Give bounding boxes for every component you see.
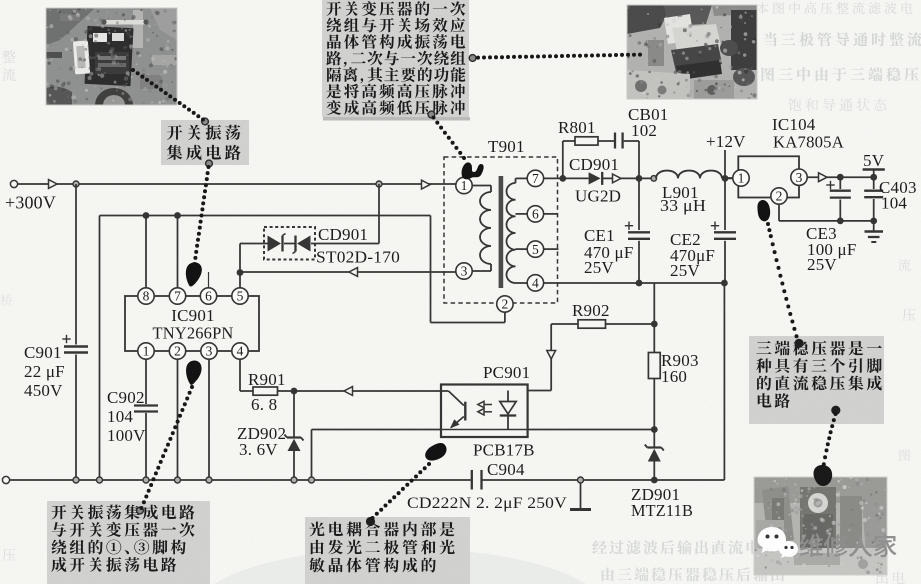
optocoupler PC901 body <box>441 385 528 438</box>
node junction pin8-bus <box>143 212 150 219</box>
label IC901 <box>153 306 234 343</box>
wire primary-ground riser <box>99 216 101 481</box>
annotation dot bottom of right box <box>831 406 840 415</box>
resistor R801 <box>563 137 614 179</box>
node 5V supply stub <box>863 170 885 178</box>
diode ZD902 zener <box>285 391 304 480</box>
node junction CE1-rail <box>636 280 643 287</box>
pointer blob at IC901 pin2 <box>186 360 202 384</box>
diode CD901 UG2D rectifier <box>589 172 603 185</box>
faint page watermark ellipse <box>193 548 607 584</box>
wire secondary ground rail <box>482 479 725 481</box>
photo: switch-mode IC on circuit board (top-left) <box>44 7 178 106</box>
wire IC901 pin3 lead <box>208 359 210 480</box>
node junction R902-R903 <box>651 321 658 328</box>
label CE2 value <box>670 230 715 280</box>
pin IC901 pin4 <box>232 343 248 359</box>
label CD901 UG2D <box>569 155 621 206</box>
wire R901 to optocoupler <box>278 387 442 396</box>
node rail marker pin1 <box>143 477 149 483</box>
node rail marker riser <box>97 477 103 483</box>
diode CD901 snubber ST02D-170 <box>240 184 379 260</box>
capacitor CE3 <box>826 177 851 221</box>
label ZD902 value <box>237 424 286 459</box>
node ground junction <box>578 477 584 483</box>
wire 12V node riser <box>724 150 726 230</box>
dotted trail top box to photo2 <box>476 53 642 60</box>
node junction C901-rail <box>73 181 79 187</box>
node junction C403-gnd <box>870 218 877 225</box>
label R903 value <box>661 351 699 386</box>
pin IC901 pin2 <box>169 343 185 359</box>
pin IC901 pin3 <box>201 343 217 359</box>
label PCB17B <box>473 441 535 460</box>
pin IC104 pin1 <box>733 170 749 186</box>
node rail marker ZD902 <box>291 477 297 483</box>
label CE1 value <box>584 226 634 277</box>
wire optocoupler emitter return <box>312 430 442 481</box>
annotation marker top of bottom-left box <box>137 507 144 514</box>
wire R902 to optocoupler LED <box>528 324 556 391</box>
node marker L901 input <box>651 176 657 182</box>
label +12V <box>706 132 746 151</box>
wire rail riser to 25V rail <box>723 283 725 480</box>
wire IC901 pin7 lead <box>177 216 179 288</box>
dotted trail top box to transformer <box>432 116 467 161</box>
logo text weixiurenjia <box>800 534 897 557</box>
label CD901 snubber <box>316 225 400 267</box>
pin T901 pin3 <box>456 263 472 279</box>
label C403 value <box>879 178 917 213</box>
ground symbol 5V section <box>865 221 884 242</box>
node junction ZD901-rail <box>651 477 658 484</box>
node junction CE3-out <box>837 174 844 181</box>
pin IC901 pin5 <box>232 288 248 304</box>
node junction CB01-CE1 <box>636 175 643 182</box>
dotted trail label box to IC901 <box>193 165 211 266</box>
wire T901 pin6 stub <box>544 213 558 215</box>
label R901 value <box>248 370 286 414</box>
node rail marker C901 <box>73 477 79 483</box>
inductor T901 primary winding <box>472 186 491 272</box>
capacitor CE1 <box>625 178 650 283</box>
capacitor C403 <box>864 177 883 221</box>
pointer blob at PC901 <box>425 443 446 461</box>
resistor R902 <box>551 320 654 328</box>
faint bleedthrough text right-edge <box>898 259 915 321</box>
pin T901 pin2 <box>497 296 513 312</box>
wire IC104 pin2 ground <box>779 204 874 221</box>
annotation marker right of top box <box>469 55 476 62</box>
label +300V <box>5 193 56 213</box>
ic IC104 KA7805A body <box>738 156 799 197</box>
wire T901 tap pin6 <box>516 213 528 215</box>
pointer blob at IC901 pin7 <box>186 262 202 286</box>
node rail marker pin2 <box>175 477 181 483</box>
light arrows PC901 <box>478 401 492 415</box>
node junction opto-ZD901 <box>651 426 658 433</box>
pin IC901 pin1 <box>138 343 154 359</box>
label L901 value <box>660 183 706 215</box>
annotation marker bottom of top box <box>428 111 435 118</box>
pointer knob at photo3 <box>813 465 832 486</box>
pin T901 pin4 <box>527 275 543 291</box>
annotation dot top of bottom-middle box <box>366 517 375 526</box>
pin T901 pin1 <box>456 177 472 193</box>
resistor R901 <box>253 387 278 395</box>
diode PC901 LED <box>500 391 516 430</box>
wire 25V ground rail <box>544 282 725 284</box>
faint bleedthrough text bottom <box>3 449 911 584</box>
label PC901 <box>483 363 530 382</box>
wire IC901 pin8 lead <box>145 216 147 288</box>
wire bias return bus <box>100 215 431 217</box>
label C902 value <box>107 388 146 445</box>
logo wechat bubbles <box>758 527 799 558</box>
pin T901 pin5 <box>527 241 543 257</box>
label C904 <box>487 460 525 479</box>
photo: switching transformer on circuit board (top-right) <box>626 5 759 101</box>
node rail marker emitter <box>309 477 315 483</box>
wire PC901 internal bottom <box>441 429 528 431</box>
pin IC901 pin8 <box>138 288 154 304</box>
node junction snubber-tap <box>559 175 566 182</box>
dotted trail photo1 to label box <box>131 68 205 122</box>
label IC104 <box>772 115 845 152</box>
annotation box: oscillator IC label <box>161 120 249 165</box>
pin T901 pin6 <box>527 206 543 222</box>
wire IC104 pin1 input <box>725 177 733 179</box>
wire IC901 pin1 lead with C902 <box>145 359 147 480</box>
wire T901 tap pin5 <box>516 248 528 250</box>
ground symbol secondary <box>570 483 591 510</box>
node junction C403-out <box>870 174 877 181</box>
annotation box: regulator note (right) <box>749 336 884 424</box>
wire IC901 pin5 lead <box>239 244 241 288</box>
label ZD901 value <box>631 485 693 520</box>
annotation marker bottom of label box <box>206 160 213 167</box>
label 5V <box>863 151 885 170</box>
capacitor CB01 <box>615 133 639 179</box>
pin IC104 pin3 <box>791 169 807 185</box>
wire pin5 to T901 pin3 <box>240 268 456 277</box>
dotted trail right box to photo3 <box>822 412 838 466</box>
node junction CE2-rail <box>721 280 728 287</box>
node +300V input terminal <box>10 180 25 187</box>
label C904 value <box>407 495 567 512</box>
inductor T901 secondary winding <box>506 178 527 283</box>
wire optocoupler cathode line <box>528 429 655 431</box>
capacitor CE2 <box>711 222 736 284</box>
transistor PC901 phototransistor <box>441 391 465 428</box>
ic IC901 TNY266PN body <box>125 296 259 351</box>
wire IC104 pin3 output <box>807 173 874 182</box>
node junction pin7-bus <box>174 212 181 219</box>
annotation marker top of label box <box>202 118 209 125</box>
node rail marker pin3 <box>206 477 212 483</box>
transformer T901 core <box>499 176 504 288</box>
pin IC104 pin2 <box>771 188 787 204</box>
label CB01 value <box>628 105 668 140</box>
node junction R901-ZD902 <box>291 388 298 395</box>
node junction snubber-rail <box>376 181 382 187</box>
label C901 value <box>24 343 65 400</box>
annotation dot top of right box <box>794 339 803 348</box>
wire primary ground rail <box>2 476 470 483</box>
annotation box: oscillator circuit note (bottom-left) <box>47 501 210 584</box>
node junction L901-IC104 <box>722 175 729 182</box>
dotted trail PC901 to bottom-middle box <box>371 462 432 520</box>
capacitor C901 <box>62 184 88 480</box>
wire IC901 pin2 lead <box>177 359 179 480</box>
wire T901 pin7 output <box>544 177 589 179</box>
label R801 <box>558 118 596 137</box>
wire T901 pin5 stub <box>544 248 559 250</box>
annotation box: transformer function (top-middle) <box>322 0 470 121</box>
label CE3 value <box>806 224 857 274</box>
resistor R903 <box>648 283 660 430</box>
wire +300V top rail <box>25 180 456 189</box>
pin T901 pin7 <box>527 170 543 186</box>
node junction CE3-gnd <box>837 218 844 225</box>
wire bus-to-T901-pin2 <box>431 216 505 323</box>
dotted trail IC901 pin2 to bottom-left box <box>140 385 195 510</box>
pin IC901 pin7 <box>169 288 185 304</box>
pin IC901 pin6 <box>200 288 216 304</box>
capacitor C904 <box>472 470 482 490</box>
wire IC901 pin6 stub <box>208 272 210 288</box>
label T901 <box>488 137 525 156</box>
faint bleedthrough text top-right <box>757 2 921 111</box>
pointer scribble at T901 pin1 <box>462 162 484 179</box>
capacitor C902 <box>134 406 158 412</box>
wire rectifier output <box>602 174 656 183</box>
inductor L901 <box>656 171 733 179</box>
annotation box: optocoupler note (bottom-middle) <box>305 517 470 584</box>
pointer blob at IC104 pin2 <box>757 200 770 221</box>
diode ZD901 zener <box>645 430 664 481</box>
wire IC901 pin4 lead <box>240 359 253 391</box>
dotted trail IC104 to right box <box>766 222 799 338</box>
faint bleedthrough text left-edge <box>0 50 15 306</box>
transformer T901 boundary <box>444 157 558 303</box>
label R902 <box>572 301 610 320</box>
node junction pin5-feedback <box>237 269 244 276</box>
photo: three-terminal regulator on circuit board (bottom-right) <box>754 475 887 576</box>
